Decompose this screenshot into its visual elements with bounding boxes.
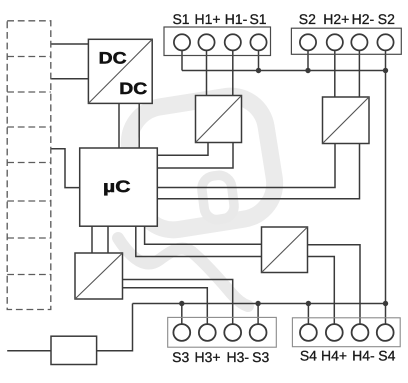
wire: S1 left terminal down <box>181 50 183 70</box>
node: S2 right junction <box>383 68 388 73</box>
wire: DC/DC output left to uC <box>118 103 120 148</box>
svg-text:µC: µC <box>103 178 131 196</box>
labels terminal block 4 <box>300 348 396 364</box>
svg-text:H2+: H2+ <box>323 11 349 27</box>
wire: bottom S bus <box>133 303 386 305</box>
terminal block 4 (S4 H4+ H4- S4) <box>292 318 400 347</box>
svg-text:S3: S3 <box>252 349 269 365</box>
svg-text:S1: S1 <box>172 11 189 27</box>
labels terminal block 1 <box>172 11 266 27</box>
node: S1 right junction <box>256 68 261 73</box>
power supply DC/DC converter <box>88 39 152 103</box>
svg-text:H4-: H4- <box>352 348 375 364</box>
terminal block 1 (S1 H1+ H1- S1) <box>164 27 271 56</box>
wire: uC to isolator U4 upper pin <box>145 226 262 244</box>
labels terminal block 2 <box>299 11 395 27</box>
svg-text:S4: S4 <box>300 348 317 364</box>
wire: supply 1 from connector to DC/DC <box>51 43 88 45</box>
isolator U2 (channel 2) <box>323 97 370 144</box>
node: S3 left junction <box>179 301 184 306</box>
wire: resistor to left edge <box>7 350 51 352</box>
wire: uC to isolator U2 left pin <box>157 144 335 188</box>
svg-text:H3+: H3+ <box>194 349 220 365</box>
svg-text:S1: S1 <box>249 11 266 27</box>
node: S4 left junction <box>306 301 311 306</box>
isolator U4 (channel 4) <box>262 227 308 273</box>
svg-text:H1+: H1+ <box>194 11 220 27</box>
wire: U3 to H3- terminal <box>123 280 233 325</box>
terminal block 3 (S3 H3+ H3- S3) <box>168 317 277 347</box>
node: S3 right junction <box>255 301 260 306</box>
svg-text:H2-: H2- <box>352 11 375 27</box>
connector: left dashed terminal strip <box>7 21 51 310</box>
svg-text:S3: S3 <box>172 349 189 365</box>
wire: S1 right terminal to bus <box>258 50 260 70</box>
wire: supply 2 from connector to DC/DC <box>51 78 88 80</box>
svg-text:DC: DC <box>119 80 147 98</box>
microcontroller uC <box>80 148 158 226</box>
wire: H1+ terminal to U1 <box>206 50 208 95</box>
watermark <box>118 91 280 306</box>
wire: uC to isolator U3 pin 1 <box>91 226 93 253</box>
wire: H1- terminal to U1 <box>232 50 234 95</box>
wire: U4 to H4- terminal <box>308 245 361 325</box>
wire: S4 left terminal to bus <box>307 304 309 325</box>
svg-text:H3-: H3- <box>227 349 250 365</box>
wire: U4 to H4+ terminal <box>308 257 335 325</box>
wire: uC to isolator U1 right pin <box>157 143 233 169</box>
wire: uC to isolator U2 right pin <box>157 144 359 199</box>
isolator U3 (channel 3) <box>75 253 123 299</box>
svg-text:H1-: H1- <box>225 11 248 27</box>
node: S2 left junction <box>305 68 310 73</box>
wire: H2+ terminal to U2 <box>334 50 336 97</box>
svg-text:S2: S2 <box>378 11 395 27</box>
wire: connector to microcontroller <box>51 149 80 188</box>
wire: uC to isolator U1 left pin <box>157 143 208 156</box>
wire: uC to isolator U4 lower pin <box>136 226 262 256</box>
svg-text:DC: DC <box>99 50 127 68</box>
wire: bottom bus down to resistor <box>97 304 133 351</box>
svg-text:S2: S2 <box>299 11 316 27</box>
wire: S2 right terminal down right-side drop <box>385 50 387 324</box>
wire: H2- terminal to U2 <box>358 50 360 97</box>
wire: S3 right terminal to bus <box>257 304 259 325</box>
wire: S3 left terminal to bus <box>181 304 183 325</box>
wire: uC to isolator U3 pin 2 <box>107 226 109 253</box>
labels terminal block 3 <box>172 349 269 365</box>
wire: DC/DC output right to uC <box>138 103 140 148</box>
isolator U1 (channel 1) <box>196 96 242 143</box>
wire: top S bus <box>182 70 386 72</box>
svg-text:S4: S4 <box>378 348 395 364</box>
terminal block 2 (S2 H2+ H2- S2) <box>291 28 401 54</box>
node: S4 right junction <box>383 301 388 306</box>
wire: S2 left terminal to bus <box>307 50 309 70</box>
svg-text:H4+: H4+ <box>321 348 347 364</box>
wire: U3 to H3+ terminal <box>123 288 208 325</box>
resistor (line termination) <box>51 336 97 364</box>
